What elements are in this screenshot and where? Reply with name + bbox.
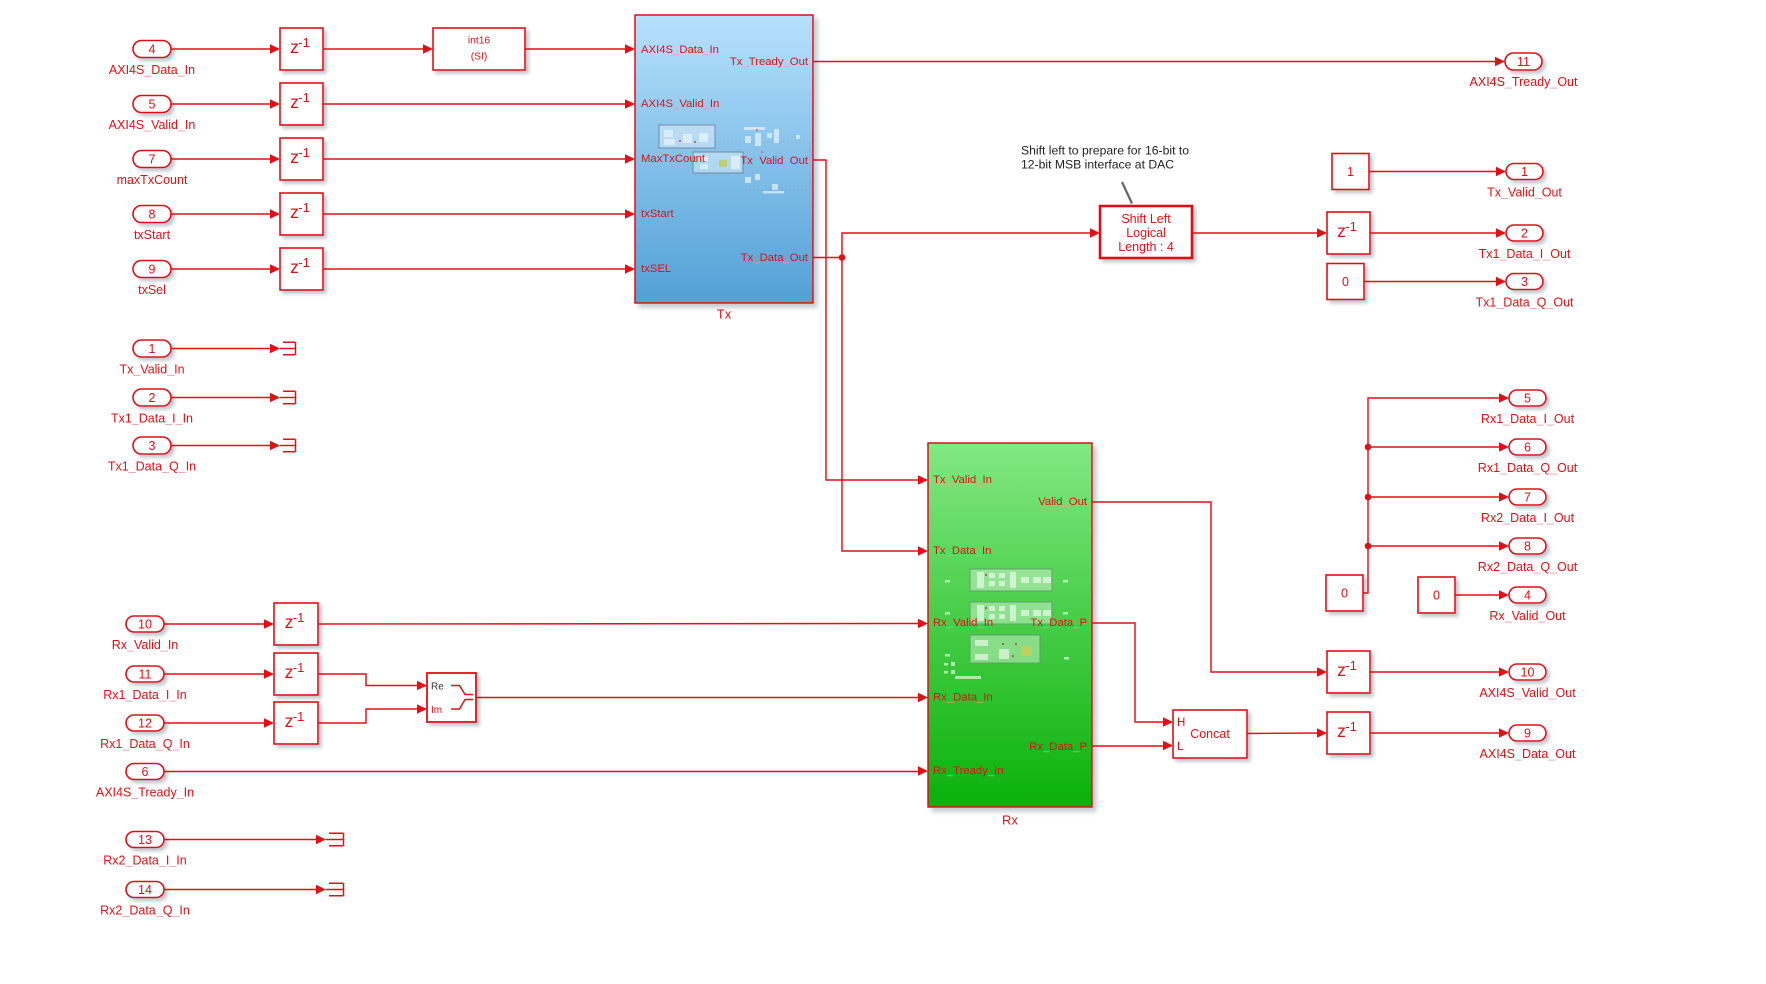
svg-text:Rx_Data_P: Rx_Data_P (1029, 741, 1087, 753)
svg-text:Tx_Data_Out: Tx_Data_Out (741, 252, 809, 264)
svg-text:Tx_Valid_In: Tx_Valid_In (119, 363, 184, 377)
svg-text:AXI4S_Valid_In: AXI4S_Valid_In (109, 118, 196, 132)
svg-text:Rx_Valid_In: Rx_Valid_In (112, 638, 179, 652)
svg-text:Tx1_Data_Q_Out: Tx1_Data_Q_Out (1476, 296, 1575, 310)
svg-text:2: 2 (149, 391, 156, 405)
svg-text:-1: -1 (298, 90, 310, 105)
svg-text:14: 14 (138, 883, 152, 897)
svg-text:0: 0 (1341, 587, 1348, 601)
svg-text:Tx1_Data_I_In: Tx1_Data_I_In (111, 412, 193, 426)
svg-text:Rx1_Data_I_In: Rx1_Data_I_In (103, 688, 186, 702)
svg-text:Tx_Valid_Out: Tx_Valid_Out (740, 155, 809, 167)
svg-text:Rx_Valid_In: Rx_Valid_In (933, 617, 993, 629)
svg-text:2: 2 (1521, 227, 1528, 241)
svg-text:AXI4S_Tready_In: AXI4S_Tready_In (96, 786, 194, 800)
svg-text:AXI4S_Data_In: AXI4S_Data_In (641, 44, 719, 56)
svg-text:-1: -1 (293, 610, 305, 625)
svg-text:8: 8 (149, 208, 156, 222)
svg-text:Length : 4: Length : 4 (1118, 240, 1174, 254)
svg-text:Rx_Tready_In: Rx_Tready_In (933, 765, 1004, 777)
svg-text:4: 4 (149, 43, 156, 57)
svg-text:Tx_Data_P: Tx_Data_P (1030, 617, 1087, 629)
svg-text:-1: -1 (298, 145, 310, 160)
svg-text:9: 9 (149, 263, 156, 277)
svg-text:3: 3 (149, 439, 156, 453)
svg-text:-1: -1 (1345, 219, 1357, 234)
svg-text:AXI4S_Tready_Out: AXI4S_Tready_Out (1470, 75, 1578, 89)
svg-text:8: 8 (1524, 540, 1531, 554)
svg-text:(SI): (SI) (471, 52, 488, 63)
svg-text:txStart: txStart (134, 228, 171, 242)
svg-text:AXI4S_Valid_In: AXI4S_Valid_In (641, 98, 719, 110)
svg-text:6: 6 (1524, 441, 1531, 455)
svg-text:13: 13 (138, 833, 152, 847)
svg-text:9: 9 (1524, 727, 1531, 741)
svg-text:Tx_Valid_In: Tx_Valid_In (933, 474, 992, 486)
svg-text:Rx1_Data_I_Out: Rx1_Data_I_Out (1481, 412, 1575, 426)
svg-text:11: 11 (1517, 55, 1530, 69)
svg-text:Valid_Out: Valid_Out (1038, 496, 1088, 508)
svg-text:AXI4S_Valid_Out: AXI4S_Valid_Out (1479, 686, 1576, 700)
svg-text:11: 11 (139, 668, 152, 682)
svg-text:AXI4S_Data_In: AXI4S_Data_In (109, 63, 195, 77)
svg-text:Rx2_Data_I_Out: Rx2_Data_I_Out (1481, 511, 1575, 525)
svg-text:Rx2_Data_I_In: Rx2_Data_I_In (103, 854, 186, 868)
svg-text:Shift Left: Shift Left (1121, 212, 1171, 226)
svg-text:Tx1_Data_I_Out: Tx1_Data_I_Out (1479, 247, 1571, 261)
svg-text:H: H (1177, 717, 1185, 729)
svg-text:Rx_Data_In: Rx_Data_In (933, 692, 993, 704)
svg-text:1: 1 (1521, 165, 1528, 179)
svg-text:int16: int16 (468, 36, 491, 47)
svg-text:5: 5 (149, 98, 156, 112)
svg-text:Shift left to prepare for 16-b: Shift left to prepare for 16-bit to (1021, 144, 1189, 158)
svg-text:Rx: Rx (1002, 813, 1018, 828)
svg-text:MaxTxCount: MaxTxCount (641, 153, 706, 165)
svg-text:3: 3 (1521, 275, 1528, 289)
svg-text:Re: Re (431, 682, 444, 693)
svg-text:AXI4S_Data_Out: AXI4S_Data_Out (1480, 747, 1576, 761)
svg-text:5: 5 (1524, 392, 1531, 406)
svg-text:12-bit MSB interface at DAC: 12-bit MSB interface at DAC (1021, 158, 1174, 172)
svg-text:Rx2_Data_Q_Out: Rx2_Data_Q_Out (1478, 560, 1578, 574)
svg-text:-1: -1 (298, 35, 310, 50)
svg-text:-1: -1 (1345, 658, 1357, 673)
svg-text:Tx_Tready_Out: Tx_Tready_Out (730, 56, 809, 68)
svg-text:Tx_Data_In: Tx_Data_In (933, 545, 991, 557)
svg-text:6: 6 (142, 765, 149, 779)
svg-text:0: 0 (1342, 275, 1349, 289)
svg-text:txSel: txSel (138, 283, 166, 297)
svg-text:7: 7 (1524, 491, 1531, 505)
svg-text:4: 4 (1524, 589, 1531, 603)
svg-text:-1: -1 (298, 255, 310, 270)
svg-text:Rx1_Data_Q_In: Rx1_Data_Q_In (100, 737, 190, 751)
svg-text:-1: -1 (298, 200, 310, 215)
svg-text:Tx_Valid_Out: Tx_Valid_Out (1487, 186, 1562, 200)
svg-text:10: 10 (138, 618, 152, 632)
svg-text:Im: Im (431, 705, 442, 716)
svg-text:1: 1 (1347, 165, 1354, 179)
svg-text:Rx2_Data_Q_In: Rx2_Data_Q_In (100, 904, 190, 918)
svg-text:Rx_Valid_Out: Rx_Valid_Out (1489, 609, 1566, 623)
svg-text:Concat: Concat (1190, 727, 1230, 741)
svg-text:txSEL: txSEL (641, 263, 671, 275)
svg-text:txStart: txStart (641, 208, 675, 220)
svg-text:12: 12 (138, 717, 152, 731)
svg-text:Rx1_Data_Q_Out: Rx1_Data_Q_Out (1478, 461, 1578, 475)
svg-text:1: 1 (149, 342, 156, 356)
svg-text:-1: -1 (293, 709, 305, 724)
svg-text:Logical: Logical (1126, 226, 1166, 240)
svg-text:maxTxCount: maxTxCount (117, 173, 188, 187)
svg-text:Tx1_Data_Q_In: Tx1_Data_Q_In (108, 460, 196, 474)
svg-text:Tx: Tx (717, 307, 732, 322)
svg-text:10: 10 (1521, 666, 1535, 680)
svg-text:-1: -1 (1345, 719, 1357, 734)
svg-text:L: L (1177, 741, 1184, 753)
svg-text:-1: -1 (293, 660, 305, 675)
svg-text:7: 7 (149, 153, 156, 167)
svg-text:0: 0 (1433, 589, 1440, 603)
